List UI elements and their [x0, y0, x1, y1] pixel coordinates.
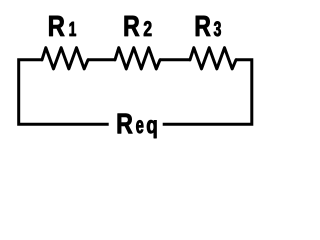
- resistor R3 label: subscript 3: [214, 21, 221, 36]
- node Req label: R: [118, 114, 133, 134]
- resistor R3 label: R: [196, 16, 211, 36]
- wire: stub between R1 and R2: [88, 58, 115, 61]
- wire: top-right stub + right side + bottom-right segment: [163, 60, 252, 124]
- resistor R1 label: R: [49, 16, 64, 36]
- resistor R2: [115, 48, 160, 69]
- resistor R3: [190, 48, 236, 69]
- resistor R2 label: subscript 2: [144, 21, 151, 36]
- wire: stub between R2 and R3: [160, 58, 190, 61]
- node Req label: subscript e: [136, 120, 143, 133]
- resistor R2 label: R: [125, 16, 140, 36]
- resistor R1: [42, 48, 88, 69]
- node Req label: subscript q: [147, 120, 156, 138]
- wire: bottom-left segment + left side + top-left stub: [19, 60, 109, 124]
- resistor R1 label: subscript 1: [70, 22, 76, 36]
